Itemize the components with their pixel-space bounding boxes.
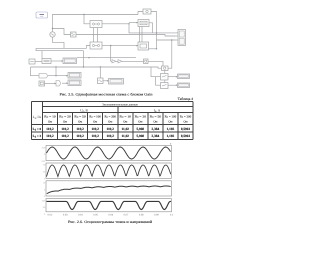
svg-text:Ld, Гн: Ld, Гн xyxy=(33,115,42,120)
wire: bus drop to junction xyxy=(55,67,57,76)
panel 3 rising current trace xyxy=(47,186,171,194)
svg-text:119,2: 119,2 xyxy=(106,134,114,138)
wire: block B output to scope pin 1 xyxy=(102,24,176,33)
display N xyxy=(178,74,190,79)
measurement block B xyxy=(90,21,102,28)
schematic: single-phase bridge model xyxy=(29,9,190,89)
svg-text:Ld = 0: Ld = 0 xyxy=(33,127,42,132)
svg-text:Rн = 200: Rн = 200 xyxy=(180,114,192,118)
svg-text:Rн = 100: Rн = 100 xyxy=(165,114,177,118)
svg-text:Рис. 2.6. Осциллограммы токов: Рис. 2.6. Осциллограммы токов и напряжен… xyxy=(68,220,152,224)
wire: lower bus branch xyxy=(36,48,84,50)
svg-text:Ом: Ом xyxy=(123,119,127,123)
block T xyxy=(39,81,45,86)
svg-text:Rн = 20: Rн = 20 xyxy=(135,114,147,118)
svg-text:Rн = 20: Rн = 20 xyxy=(59,114,71,118)
mux R xyxy=(39,74,48,79)
block I xyxy=(98,78,104,84)
wire: bus drop into block I xyxy=(99,67,101,78)
svg-text:1,192: 1,192 xyxy=(167,134,175,138)
svg-text:0.05: 0.05 xyxy=(93,214,98,217)
svg-text:119,2: 119,2 xyxy=(61,127,69,131)
wire: bridge E to block D vertical links xyxy=(139,27,141,43)
bridge block E xyxy=(138,20,149,27)
table 4: experimental data grid xyxy=(31,102,193,140)
current display F xyxy=(143,9,151,14)
svg-text:Ud, В: Ud, В xyxy=(80,109,88,114)
wire: block C to block D xyxy=(102,45,138,47)
block L xyxy=(161,74,169,81)
wire: bottom bus xyxy=(36,47,87,49)
svg-text:5,960: 5,960 xyxy=(137,127,145,131)
svg-text:119,2: 119,2 xyxy=(46,127,54,131)
svg-text:0.04: 0.04 xyxy=(78,214,83,217)
node: junction on C-D wire xyxy=(110,45,111,46)
wire: block D output xyxy=(149,48,157,50)
oscillogram panel 4 frame xyxy=(46,199,172,212)
svg-text:Rн = 10: Rн = 10 xyxy=(44,114,56,118)
svg-text:Rн = 100: Rн = 100 xyxy=(89,114,101,118)
svg-text:11,92: 11,92 xyxy=(122,134,130,138)
wire: branch into bridge block E xyxy=(129,22,138,24)
node: bus junctions xyxy=(55,66,56,67)
svg-text:119,2: 119,2 xyxy=(61,134,69,138)
display S2 xyxy=(68,73,81,79)
wire: tiny block W to block P xyxy=(35,61,42,63)
scope block xyxy=(176,30,186,46)
wire: K to L xyxy=(164,71,166,74)
svg-text:2,384: 2,384 xyxy=(152,134,160,138)
svg-text:1,192: 1,192 xyxy=(167,127,175,131)
node: junction on mux output xyxy=(55,75,56,76)
svg-text:119,2: 119,2 xyxy=(91,127,99,131)
svg-text:Ом: Ом xyxy=(48,119,52,123)
wire: drop to measurement bus xyxy=(83,51,85,67)
svg-text:119,2: 119,2 xyxy=(76,127,84,131)
svg-text:Ом: Ом xyxy=(78,119,82,123)
svg-text:Id, А: Id, А xyxy=(154,109,161,114)
gain triangles xyxy=(112,60,122,63)
wire: block P output to display Q xyxy=(51,60,63,62)
svg-text:Rн = 200: Rн = 200 xyxy=(104,114,116,118)
svg-text:0.09: 0.09 xyxy=(154,214,159,217)
svg-text:Ом: Ом xyxy=(108,119,112,123)
wire: block B to block C vertical links xyxy=(93,28,95,43)
panel 4 notched voltage trace xyxy=(47,201,172,209)
panel 2 rectified sine trace xyxy=(47,165,171,177)
wire: block I to display J xyxy=(103,80,109,82)
svg-text:Ом: Ом xyxy=(183,119,187,123)
display J xyxy=(109,79,124,85)
svg-text:Rн = 50: Rн = 50 xyxy=(150,114,162,118)
gate U xyxy=(56,81,61,87)
svg-text:Ом: Ом xyxy=(138,119,142,123)
svg-text:Ом: Ом xyxy=(93,119,97,123)
display Q xyxy=(63,58,77,64)
block P xyxy=(42,59,51,64)
svg-text:119,2: 119,2 xyxy=(46,134,54,138)
oscillogram panel 3 frame xyxy=(46,181,172,196)
display V xyxy=(68,80,81,86)
wire: long measurement bus xyxy=(31,67,162,68)
svg-text:Rн = 10: Rн = 10 xyxy=(120,114,132,118)
svg-text:Ом: Ом xyxy=(168,119,172,123)
svg-text:11,92: 11,92 xyxy=(122,127,130,131)
wire: display F output long vertical xyxy=(151,12,157,49)
wire: rail drop to measure block B xyxy=(84,15,90,24)
oscillogram panel 2 frame xyxy=(46,163,172,178)
wire: tap into block M xyxy=(156,77,161,86)
AC voltage source xyxy=(50,32,55,37)
svg-text:2,384: 2,384 xyxy=(152,127,160,131)
wire: M to display O xyxy=(168,84,178,86)
current measurement block G xyxy=(144,59,149,64)
svg-text:0.03: 0.03 xyxy=(63,214,68,217)
svg-text:119,2: 119,2 xyxy=(76,134,84,138)
node: junction at block E input xyxy=(128,23,129,24)
wire: gate U to display V xyxy=(62,82,68,84)
measurement block C xyxy=(90,42,102,49)
wire: L to M xyxy=(164,80,166,83)
display O xyxy=(178,83,190,88)
wire: source bottom to ground bus xyxy=(53,37,65,48)
wire: voltmeter A output to scope pin 2 xyxy=(76,35,176,37)
wire: block K output riser to pin 3 wire xyxy=(168,40,172,68)
wire: scope pin 3 feed xyxy=(157,39,176,41)
voltage measurement block A xyxy=(71,32,77,37)
wire: block G output to block K xyxy=(148,61,163,66)
current block K xyxy=(162,66,169,71)
svg-text:Таблица 4: Таблица 4 xyxy=(178,97,194,101)
svg-text:0.07: 0.07 xyxy=(124,214,129,217)
powergui block xyxy=(36,12,48,18)
wire: rail to current display F xyxy=(138,12,143,15)
svg-text:Rн = 50: Rн = 50 xyxy=(74,114,86,118)
svg-text:0,5961: 0,5961 xyxy=(181,127,191,131)
wire: L to display N xyxy=(168,76,178,78)
svg-text:0.06: 0.06 xyxy=(108,214,113,217)
node: junction on secondary run xyxy=(88,57,89,58)
panel 1 sine trace xyxy=(47,147,171,159)
wire: left drop into mux R xyxy=(31,67,40,76)
svg-text:119,2: 119,2 xyxy=(106,127,114,131)
svg-text:Экспериментальные данные: Экспериментальные данные xyxy=(102,103,138,107)
wire: gain chain to current block G xyxy=(111,60,144,62)
wire: mux R output to display S2 xyxy=(48,75,68,77)
oscillogram panel 1 frame xyxy=(46,146,172,161)
wire: block T to gate U xyxy=(45,83,57,85)
svg-text:Рис. 2.5. Однофазная мостовая: Рис. 2.5. Однофазная мостовая схема с бл… xyxy=(60,92,153,96)
block M xyxy=(161,83,169,89)
svg-text:0,5961: 0,5961 xyxy=(181,134,191,138)
svg-text:0.08: 0.08 xyxy=(139,214,144,217)
wire: bridge E output drop xyxy=(149,23,153,33)
svg-text:Ld = 3: Ld = 3 xyxy=(33,134,42,139)
svg-text:0.02: 0.02 xyxy=(48,214,53,217)
svg-text:-200: -200 xyxy=(41,160,46,163)
wire: drop from C-D wire to gain chain xyxy=(110,46,112,62)
wire: drop into block P xyxy=(41,51,43,59)
node: source tap junction xyxy=(52,28,53,29)
svg-text:119,2: 119,2 xyxy=(91,134,99,138)
tiny block W xyxy=(29,59,35,64)
wire: source tap to voltmeter A xyxy=(53,29,71,35)
block D xyxy=(138,42,149,50)
wire: source top rail xyxy=(53,15,139,32)
svg-text:Ом: Ом xyxy=(63,119,67,123)
wire: secondary horizontal run xyxy=(77,57,136,59)
node: rail junction xyxy=(83,14,84,15)
svg-text:Ом: Ом xyxy=(153,119,157,123)
wire: bus rise into block C xyxy=(87,46,91,49)
svg-text:5,960: 5,960 xyxy=(137,134,145,138)
wire: bus tap into block L xyxy=(151,67,161,77)
node: junction on scope pin 1 wire xyxy=(156,32,157,33)
